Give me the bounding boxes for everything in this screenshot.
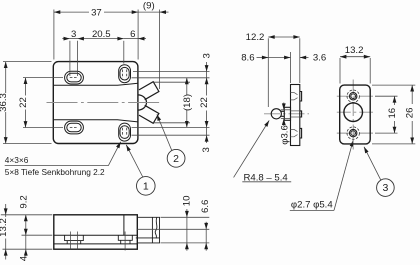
svg-text:13.2: 13.2 — [345, 45, 364, 56]
svg-text:6.6: 6.6 — [200, 200, 211, 213]
svg-text:6: 6 — [130, 29, 135, 40]
svg-text:26: 26 — [405, 108, 416, 119]
svg-text:20.5: 20.5 — [92, 29, 111, 40]
svg-text:3: 3 — [382, 182, 388, 194]
svg-text:12.2: 12.2 — [246, 32, 265, 43]
svg-text:φ2.7 φ5.4: φ2.7 φ5.4 — [291, 199, 333, 210]
svg-text:φ3.6: φ3.6 — [279, 125, 290, 145]
svg-text:2: 2 — [173, 153, 179, 165]
svg-text:37: 37 — [91, 7, 102, 18]
svg-text:R4.8 – 5.4: R4.8 – 5.4 — [244, 172, 289, 183]
svg-text:22: 22 — [18, 97, 29, 108]
svg-text:(9): (9) — [143, 1, 155, 12]
svg-text:3.6: 3.6 — [313, 52, 326, 63]
svg-text:13.2: 13.2 — [0, 218, 9, 237]
svg-text:3: 3 — [201, 147, 212, 152]
svg-text:1: 1 — [143, 181, 149, 193]
svg-text:10: 10 — [181, 196, 192, 207]
svg-text:16: 16 — [387, 108, 398, 119]
svg-text:36.3: 36.3 — [0, 93, 9, 112]
svg-text:5×8 Tiefe Senkbohrung 2.2: 5×8 Tiefe Senkbohrung 2.2 — [5, 167, 105, 177]
svg-text:22: 22 — [199, 97, 210, 108]
svg-text:3: 3 — [201, 53, 212, 58]
svg-text:(18): (18) — [182, 94, 193, 111]
svg-text:4: 4 — [18, 255, 29, 261]
svg-text:4×3×6: 4×3×6 — [5, 155, 29, 165]
svg-text:8.6: 8.6 — [241, 52, 254, 63]
svg-text:3: 3 — [71, 29, 76, 40]
svg-text:9.2: 9.2 — [18, 195, 29, 208]
